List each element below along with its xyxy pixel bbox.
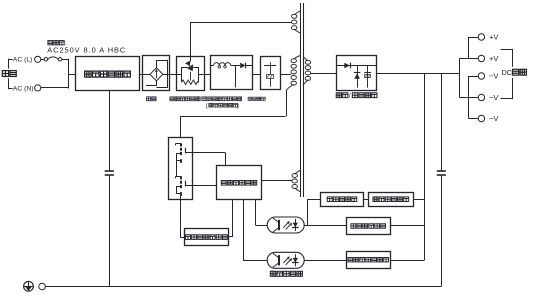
svg-text:+V: +V bbox=[489, 33, 499, 42]
svg-text:−V: −V bbox=[489, 114, 499, 123]
svg-text:): ) bbox=[237, 103, 239, 109]
svg-text:+V: +V bbox=[489, 54, 499, 63]
svg-text:/: / bbox=[349, 93, 351, 100]
svg-text:AC (N): AC (N) bbox=[13, 85, 34, 92]
svg-text:−V: −V bbox=[489, 93, 499, 102]
svg-text:AC250V 8.0 A HBC: AC250V 8.0 A HBC bbox=[47, 46, 126, 55]
svg-text:DC: DC bbox=[502, 68, 513, 77]
svg-text:−V: −V bbox=[489, 72, 499, 81]
svg-text:AC (L): AC (L) bbox=[13, 57, 33, 64]
svg-text:(: ( bbox=[206, 103, 208, 109]
